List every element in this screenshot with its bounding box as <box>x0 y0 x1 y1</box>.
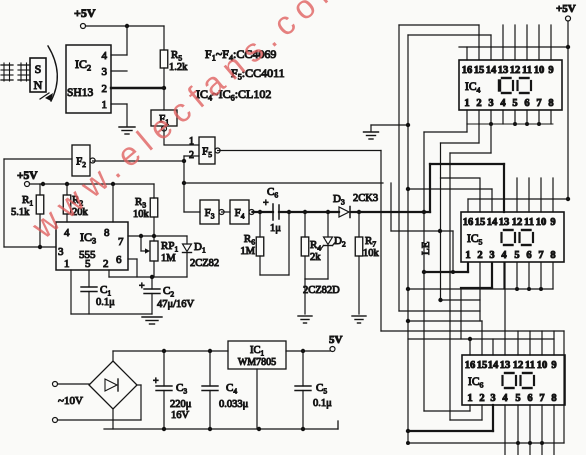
svg-text:7: 7 <box>536 98 541 109</box>
svg-text:3: 3 <box>488 98 493 109</box>
svg-text:13: 13 <box>499 217 510 228</box>
svg-text:2CZ82D: 2CZ82D <box>303 285 340 296</box>
svg-text:5: 5 <box>515 393 520 404</box>
svg-text:5: 5 <box>512 98 517 109</box>
svg-text:N: N <box>34 78 43 92</box>
svg-text:6: 6 <box>526 250 531 261</box>
svg-text:5V: 5V <box>329 334 343 346</box>
svg-text:1.2k: 1.2k <box>169 62 188 73</box>
svg-text:S: S <box>35 62 42 76</box>
svg-text:5: 5 <box>85 258 91 270</box>
svg-text:16: 16 <box>465 360 476 371</box>
svg-text:47μ/16V: 47μ/16V <box>157 299 195 310</box>
svg-text:1M: 1M <box>240 246 255 257</box>
svg-text:2: 2 <box>103 258 109 270</box>
svg-text:1: 1 <box>102 99 108 111</box>
svg-text:+5V: +5V <box>74 6 96 20</box>
svg-text:3: 3 <box>490 393 495 404</box>
svg-text:2: 2 <box>479 393 484 404</box>
svg-text:14: 14 <box>487 217 498 228</box>
svg-text:10: 10 <box>537 360 548 371</box>
svg-text:4: 4 <box>102 50 108 62</box>
svg-text:1: 1 <box>467 393 472 404</box>
svg-text:1μ: 1μ <box>270 223 281 234</box>
svg-text:16V: 16V <box>171 410 190 421</box>
svg-text:1M: 1M <box>161 253 176 264</box>
svg-text:13: 13 <box>498 65 509 76</box>
svg-text:14: 14 <box>488 360 499 371</box>
svg-text:13: 13 <box>500 360 511 371</box>
svg-text:LE: LE <box>420 241 432 255</box>
svg-text:2: 2 <box>476 98 481 109</box>
svg-text:11: 11 <box>524 217 534 228</box>
svg-text:+5V: +5V <box>17 170 38 182</box>
svg-text:12: 12 <box>512 217 523 228</box>
svg-text:8: 8 <box>104 227 110 239</box>
svg-text:15: 15 <box>474 65 485 76</box>
svg-text:6: 6 <box>527 393 532 404</box>
svg-text:0.033μ: 0.033μ <box>219 399 249 410</box>
svg-text:1: 1 <box>464 98 469 109</box>
svg-text:12: 12 <box>513 360 524 371</box>
svg-text:16: 16 <box>462 65 473 76</box>
svg-text:15: 15 <box>475 217 486 228</box>
svg-text:2: 2 <box>477 250 482 261</box>
svg-text:9: 9 <box>550 217 555 228</box>
svg-text:+: + <box>263 198 269 209</box>
svg-text:+: + <box>139 281 145 292</box>
svg-text:10: 10 <box>534 65 545 76</box>
svg-text:+: + <box>153 376 159 387</box>
svg-text:1: 1 <box>465 250 470 261</box>
svg-text:2: 2 <box>102 83 108 95</box>
svg-text:7: 7 <box>539 393 544 404</box>
svg-text:220μ: 220μ <box>170 399 192 410</box>
svg-text:4: 4 <box>502 393 508 404</box>
svg-text:15: 15 <box>477 360 488 371</box>
svg-text:2k: 2k <box>310 252 321 263</box>
svg-text:8: 8 <box>550 250 555 261</box>
svg-text:0.1μ: 0.1μ <box>96 297 115 308</box>
svg-text:6: 6 <box>116 254 122 266</box>
svg-text:2CZ82: 2CZ82 <box>190 258 219 269</box>
svg-text:3: 3 <box>102 66 108 78</box>
svg-text:11: 11 <box>525 360 535 371</box>
svg-text:5: 5 <box>514 250 519 261</box>
svg-text:7: 7 <box>538 250 543 261</box>
svg-text:~10V: ~10V <box>58 395 83 407</box>
svg-text:10: 10 <box>536 217 547 228</box>
svg-text:7: 7 <box>118 236 124 248</box>
svg-text:10k: 10k <box>133 209 150 220</box>
svg-text:6: 6 <box>524 98 529 109</box>
svg-text:14: 14 <box>486 65 497 76</box>
svg-text:9: 9 <box>551 360 556 371</box>
svg-text:WM7805: WM7805 <box>238 357 276 368</box>
svg-text:10k: 10k <box>363 248 380 259</box>
svg-text:+5V: +5V <box>556 3 576 15</box>
svg-text:4: 4 <box>500 98 506 109</box>
svg-text:16: 16 <box>463 217 474 228</box>
svg-text:3: 3 <box>489 250 494 261</box>
svg-text:9: 9 <box>548 65 553 76</box>
svg-text:8: 8 <box>548 98 553 109</box>
svg-text:3: 3 <box>58 246 64 258</box>
svg-text:8: 8 <box>551 393 556 404</box>
svg-text:2CK3: 2CK3 <box>353 193 378 204</box>
svg-text:12: 12 <box>510 65 521 76</box>
svg-text:4: 4 <box>501 250 507 261</box>
svg-text:11: 11 <box>522 65 532 76</box>
svg-text:0.1μ: 0.1μ <box>313 398 332 409</box>
svg-text:SH13: SH13 <box>67 87 93 99</box>
svg-text:1: 1 <box>64 258 70 270</box>
